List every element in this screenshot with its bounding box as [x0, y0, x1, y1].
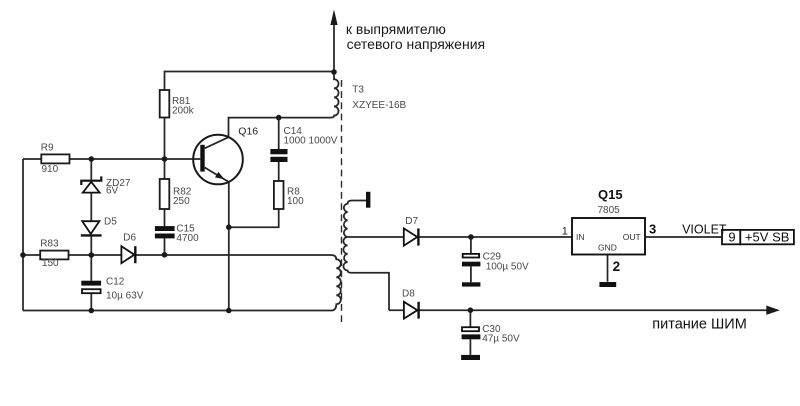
svg-text:Q15: Q15: [598, 187, 623, 202]
wire R81-R82 stem: [164, 118, 166, 180]
transformer T3 secondary winding: [343, 201, 389, 311]
resistor R8: [274, 181, 284, 209]
svg-text:10µ 63V: 10µ 63V: [106, 291, 144, 302]
wire C14 stems: [278, 118, 280, 181]
svg-text:2: 2: [613, 259, 621, 274]
wire C12 stems: [90, 255, 92, 311]
wire bottom rail: [23, 310, 331, 312]
arrow up to rectifier: [330, 10, 337, 26]
svg-text:D5: D5: [104, 217, 117, 228]
junction node C14 collector: [276, 115, 282, 121]
wire ZD27 D5 chain: [90, 159, 92, 255]
wire C15 stems: [164, 209, 166, 255]
svg-text:D7: D7: [405, 216, 418, 227]
junction node C30 D8: [468, 307, 474, 313]
junction node D5 R83: [89, 252, 95, 258]
wire C29 stems: [470, 237, 472, 282]
svg-text:3: 3: [649, 222, 656, 237]
wire Q15 GND stem: [607, 255, 609, 282]
transistor Q16 circle: [193, 135, 243, 185]
junction node C12 rail: [89, 308, 95, 314]
capacitor C12 plates: [81, 281, 101, 286]
resistor R81: [160, 90, 170, 118]
junction node left rail R83: [20, 252, 26, 258]
svg-text:C12: C12: [106, 277, 125, 288]
regulator Q15 box: [572, 218, 645, 255]
resistor R82: [160, 179, 170, 209]
transformer T3 feedback winding: [331, 255, 341, 311]
svg-text:VIOLET: VIOLET: [682, 223, 727, 237]
junction node emitter R8: [226, 224, 232, 230]
resistor R83: [40, 251, 68, 260]
svg-text:XZYEE-16B: XZYEE-16B: [352, 100, 406, 111]
svg-text:D8: D8: [402, 289, 415, 300]
svg-text:D6: D6: [123, 233, 136, 244]
connector pin 9 box: [722, 230, 740, 244]
svg-text:к выпрямителю: к выпрямителю: [346, 21, 446, 37]
ground bar C30: [461, 355, 480, 360]
svg-text:сетевого напряжения: сетевого напряжения: [347, 36, 486, 52]
junction node C15 bottom: [162, 252, 168, 258]
svg-text:IN: IN: [576, 232, 585, 242]
svg-text:4700: 4700: [176, 233, 199, 244]
transistor Q16 emitter arrow: [215, 172, 224, 179]
zener ZD27 bar: [81, 176, 101, 185]
capacitor C30 plates: [462, 327, 479, 331]
wire to rectifier vertical: [333, 14, 335, 72]
ground bar C29: [462, 282, 480, 286]
wire collector top + primary bottom: [205, 118, 331, 149]
transformer T3 core dashed line: [341, 80, 343, 324]
svg-text:7805: 7805: [598, 205, 621, 216]
diode D6 bar: [134, 246, 136, 263]
wire base row R9 to Q16: [23, 158, 200, 160]
capacitor C15 plates: [155, 226, 175, 231]
junction node C29 D7: [468, 234, 474, 240]
wire Q15 OUT to connector: [645, 236, 722, 238]
svg-text:R9: R9: [41, 143, 54, 154]
transformer T3 primary winding: [331, 72, 339, 118]
connector +5V SB box: [740, 230, 794, 244]
svg-text:1000 1000V: 1000 1000V: [284, 136, 338, 147]
wire secondary tap to D7 and Q15 IN: [348, 236, 572, 238]
capacitor C29 plates: [463, 254, 479, 258]
svg-text:1: 1: [562, 226, 568, 238]
wire D8 row to arrow: [389, 309, 767, 311]
svg-text:GND: GND: [598, 243, 617, 253]
junction node top of primary: [331, 69, 337, 75]
svg-text:Q16: Q16: [238, 126, 258, 138]
svg-text:100: 100: [287, 196, 304, 207]
svg-text:+5V SB: +5V SB: [745, 230, 789, 245]
wire R83 D6 row: [23, 254, 331, 256]
capacitor C14 plates: [270, 149, 287, 154]
diode D8 triangle: [404, 302, 418, 319]
wire C30 stems: [469, 310, 471, 355]
ground bar Q15: [599, 282, 616, 287]
diode D6 triangle: [121, 246, 134, 263]
zener ZD27 triangle: [83, 182, 100, 193]
svg-text:250: 250: [173, 196, 190, 207]
svg-text:100µ 50V: 100µ 50V: [486, 262, 529, 273]
svg-text:200k: 200k: [172, 106, 195, 117]
transformer shield stub bar: [366, 192, 370, 208]
diode D7 triangle: [404, 228, 418, 245]
wire R8 bottom to emitter: [229, 209, 279, 227]
junction node R81 R82 base: [162, 156, 168, 162]
diode D7 bar: [417, 228, 419, 245]
svg-text:6V: 6V: [106, 186, 119, 197]
transistor Q16 base bar: [200, 145, 204, 172]
diode D8 bar: [417, 302, 419, 319]
diode D5 triangle: [82, 221, 99, 234]
svg-text:T3: T3: [352, 85, 364, 96]
junction node base divider R9: [89, 156, 95, 162]
diode D5 bar: [81, 234, 102, 236]
wire top horizontal to R81: [165, 72, 335, 91]
wire emitter down: [205, 168, 229, 311]
svg-text:150: 150: [42, 258, 59, 269]
svg-text:OUT: OUT: [623, 232, 641, 242]
wire left rail: [22, 159, 24, 311]
svg-text:питание ШИМ: питание ШИМ: [652, 317, 746, 333]
svg-text:9: 9: [728, 230, 735, 245]
svg-text:R83: R83: [40, 239, 59, 250]
resistor R9: [41, 154, 69, 163]
svg-text:47µ 50V: 47µ 50V: [482, 334, 520, 345]
junction node emitter rail: [226, 308, 232, 314]
arrow right pitanie: [766, 306, 780, 315]
svg-text:910: 910: [42, 164, 59, 175]
